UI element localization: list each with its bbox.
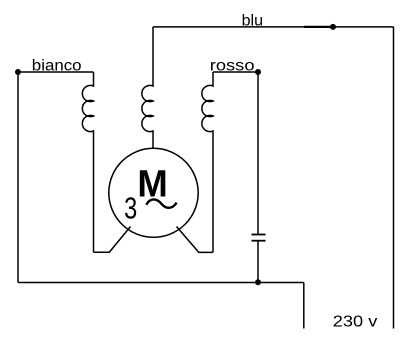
motor M1 body circle [109, 148, 198, 237]
svg-text:M: M [137, 163, 167, 206]
junction: rosso node dot [255, 69, 261, 75]
capacitor C1 plates [252, 235, 266, 241]
inductor winding L2 (blu phase, middle) with leads [142, 27, 153, 149]
wire: blu horizontal top rail [153, 26, 394, 28]
inductor winding L1 (bianco phase) with leads [82, 72, 93, 252]
wire: bottom rail [18, 282, 304, 284]
motor M1 AC tilde symbol [146, 199, 176, 207]
svg-text:3: 3 [124, 191, 137, 225]
wire: bianco horizontal [18, 71, 94, 73]
svg-text:blu: blu [242, 13, 263, 30]
junction: bianco node dot [15, 69, 21, 75]
wire: rosso horizontal [213, 71, 258, 73]
inductor winding L3 (rosso phase) with leads [202, 72, 213, 252]
capacitor C1 bottom lead [257, 242, 259, 283]
wire: bottom supply drop [303, 283, 305, 329]
svg-text:230 v: 230 v [333, 313, 378, 330]
junction: blu node dot [330, 24, 336, 30]
svg-text:bianco: bianco [32, 57, 82, 74]
capacitor C1 top lead [257, 72, 259, 234]
wire: blu overdrawn thick stub [304, 26, 333, 28]
junction: capacitor bottom node dot [255, 279, 261, 285]
wire: left motor foot and leg [94, 227, 131, 253]
wire: right motor foot and leg [177, 227, 214, 253]
wire: right outer vertical (supply) [393, 27, 395, 329]
svg-text:rosso: rosso [210, 57, 255, 74]
wire: left outer vertical (bianco node to bottom rail) [17, 72, 19, 283]
